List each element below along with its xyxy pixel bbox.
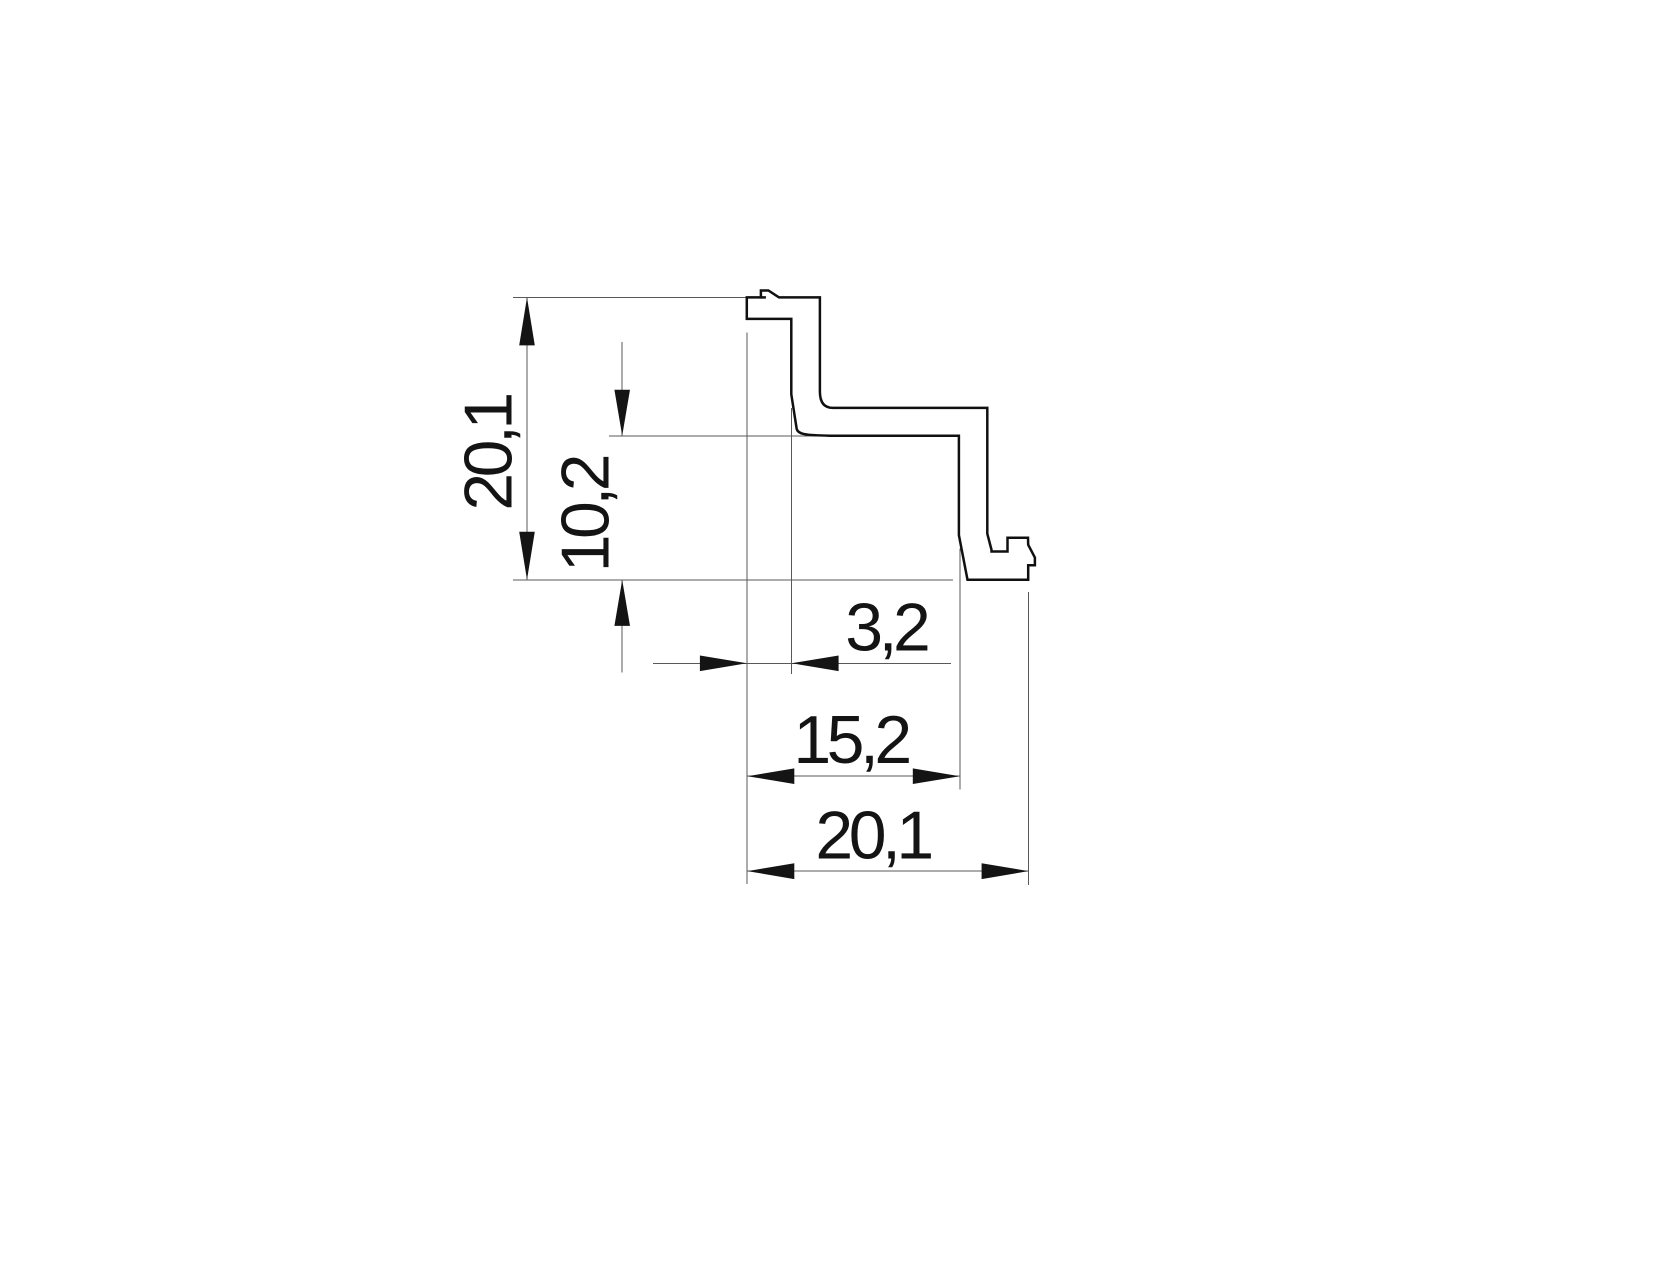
svg-text:3,2: 3,2	[845, 589, 928, 665]
svg-text:20,1: 20,1	[815, 798, 931, 874]
svg-text:10,2: 10,2	[548, 456, 624, 572]
svg-text:20,1: 20,1	[451, 395, 527, 511]
svg-text:15,2: 15,2	[793, 702, 909, 778]
